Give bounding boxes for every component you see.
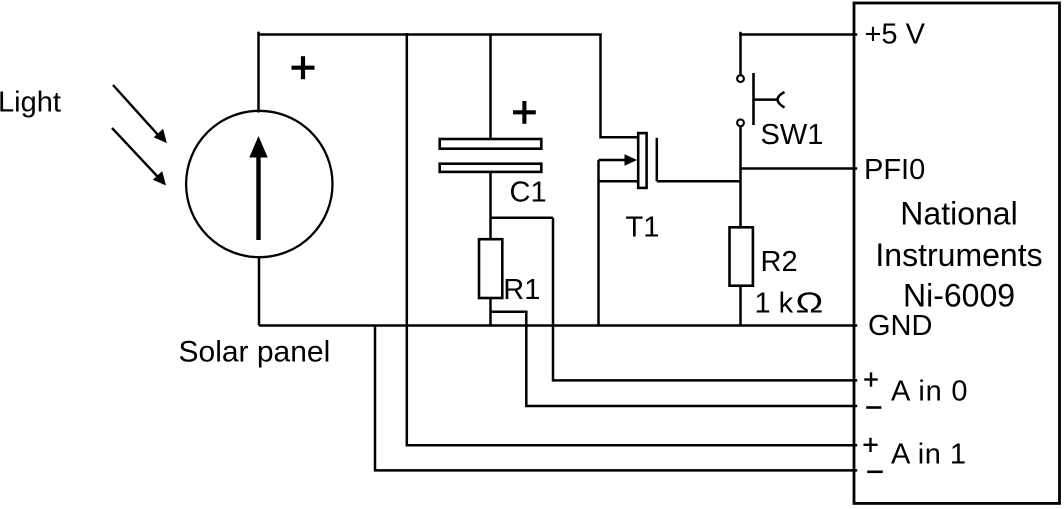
svg-text:National: National [900, 195, 1017, 231]
capacitor C1 bottom plate [440, 164, 542, 172]
wire T1 source lead to GND rail [597, 160, 600, 326]
wire top +5V rail from SW1 to DAQ box [739, 33, 857, 36]
wire solar panel top lead [257, 32, 260, 113]
pin A in 1 minus mark [867, 470, 883, 473]
plus sign at C1 [513, 101, 536, 124]
pin A in 0 plus mark [864, 372, 878, 386]
resistor R1 [479, 239, 502, 298]
wire SW1 bottom lead to PFI0 node [739, 126, 742, 169]
svg-text:C1: C1 [510, 176, 547, 208]
wire node junction below C1 [491, 216, 554, 219]
solar panel current arrow [249, 136, 267, 240]
svg-text:PFI0: PFI0 [864, 154, 925, 186]
plus sign at solar panel output [292, 56, 315, 79]
wire branch to A in 0 plus [553, 218, 857, 381]
svg-text:R1: R1 [503, 274, 540, 306]
switch SW1 bottom contact [737, 119, 744, 126]
wire R1 bottom lead to GND rail [489, 298, 492, 326]
svg-text:Ω: Ω [796, 287, 824, 319]
resistor R2 [730, 227, 753, 285]
transistor T1 gate bar [656, 138, 659, 182]
wire node to R2 top [739, 169, 742, 228]
switch SW1 top contact [737, 75, 744, 82]
svg-text:SW1: SW1 [761, 119, 824, 151]
svg-text:+5 V: +5 V [865, 18, 926, 50]
transistor T1 channel plate [638, 133, 646, 188]
svg-text:A in 1: A in 1 [891, 439, 967, 471]
svg-text:Ni-6009: Ni-6009 [903, 277, 1015, 313]
svg-text:Solar panel: Solar panel [179, 336, 331, 369]
wire C1 top lead [489, 35, 492, 140]
solar panel current source circle [186, 111, 332, 257]
wire GND rail branch to A in 1 minus [375, 326, 857, 471]
wire T1 drain lead from top rail [601, 35, 638, 138]
capacitor C1 top plate [440, 139, 542, 149]
switch SW1 actuator bar [752, 73, 755, 125]
label 1 kOhm value [755, 287, 824, 319]
wire PFI0 net [741, 167, 858, 170]
transistor T1 body arrow [599, 154, 638, 165]
pin A in 0 minus mark [866, 406, 881, 409]
wire R2 bottom lead to GND rail [739, 286, 742, 326]
svg-text:R2: R2 [761, 246, 798, 278]
pin A in 1 plus mark [864, 438, 878, 452]
svg-text:Light: Light [0, 87, 61, 119]
DAQ box National Instruments Ni-6009 [854, 3, 1060, 503]
light ray arrow 1 [113, 85, 167, 143]
wire SW1 top lead from rail [739, 32, 742, 75]
switch SW1 pushbutton stem [754, 98, 778, 101]
wire C1 bottom lead [489, 172, 492, 218]
wire T1 gate to node [657, 180, 741, 183]
wire GND rail [259, 324, 857, 327]
svg-text:1 k: 1 k [755, 288, 794, 320]
switch SW1 pushbutton cap arc [778, 92, 785, 108]
light ray arrow 2 [112, 128, 166, 186]
wire R1 bottom branch to A in 0 minus [491, 312, 858, 406]
wire solar panel bottom lead [258, 256, 261, 326]
wire top rail from solar panel to T1 drain [259, 33, 602, 36]
svg-text:GND: GND [868, 310, 932, 342]
wire T1 source connection to channel [599, 180, 638, 183]
svg-text:T1: T1 [626, 212, 660, 244]
svg-text:Instruments: Instruments [875, 237, 1042, 273]
wire R1 top lead [489, 218, 492, 239]
wire vertical branch to A in 1 plus [407, 33, 857, 445]
svg-text:A in 0: A in 0 [891, 376, 968, 408]
